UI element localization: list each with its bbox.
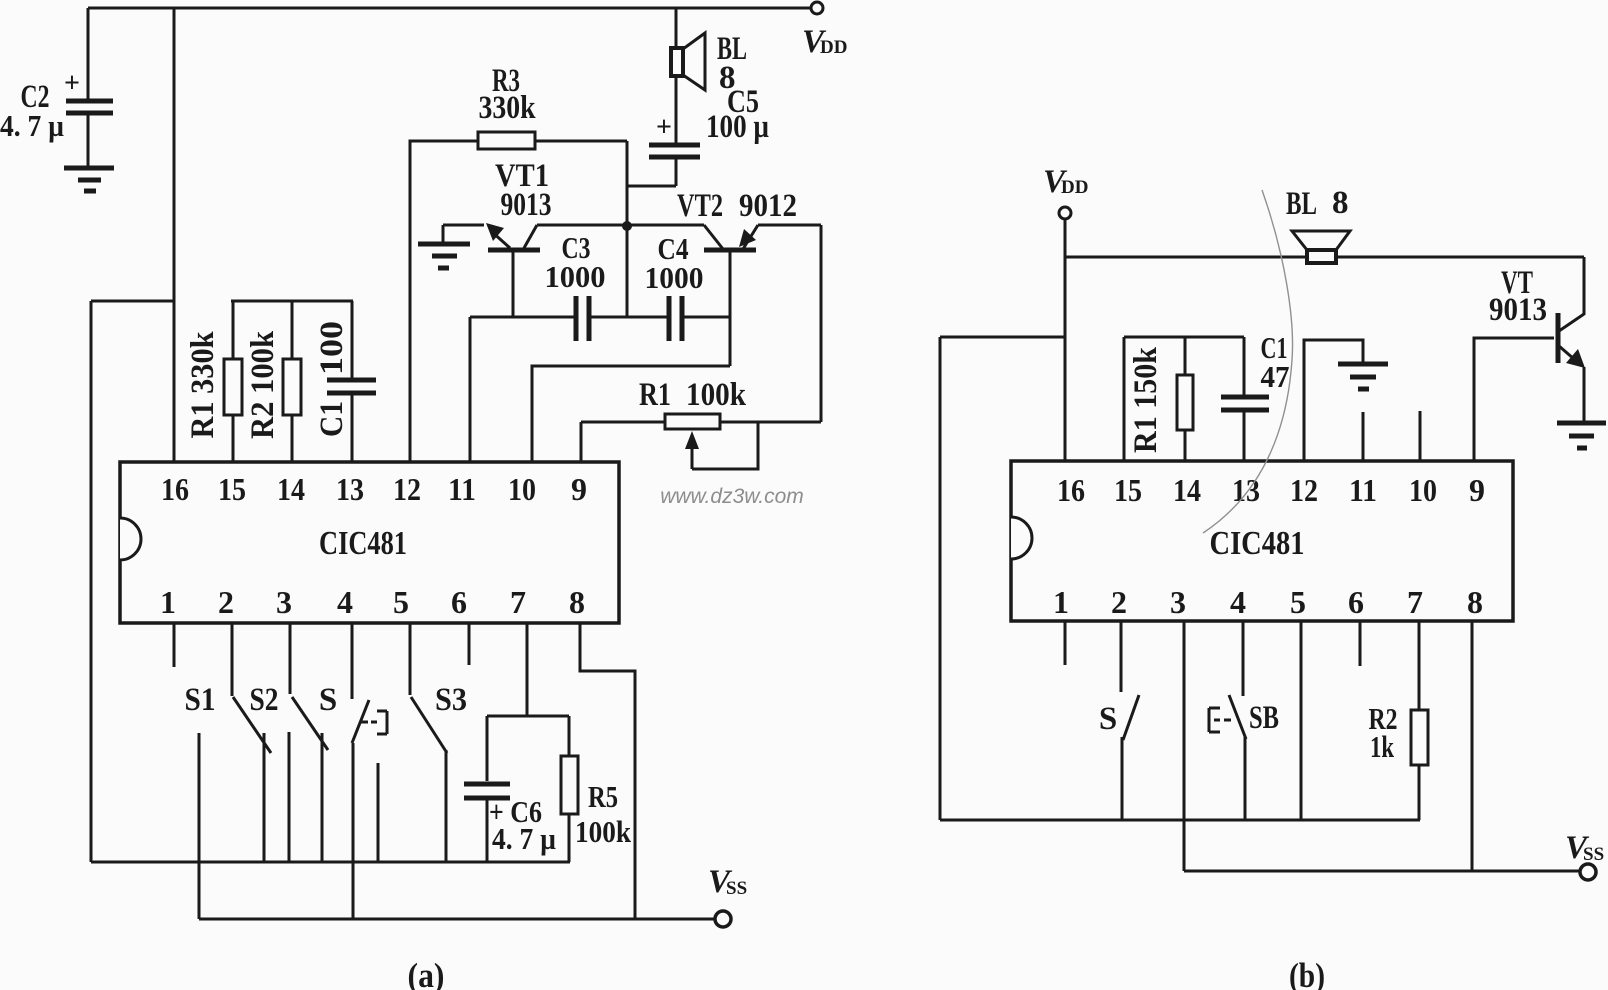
- capacitor C1 47 (b): [1221, 330, 1290, 461]
- svg-text:100: 100: [314, 321, 350, 375]
- transistor VT2 9012: [677, 188, 821, 366]
- wire bottom bus 2 to VSS (b): [1184, 870, 1579, 873]
- pin 7 stub (b): [1418, 621, 1421, 710]
- wire left branch (b): [940, 336, 1065, 339]
- svg-text:3: 3: [276, 584, 292, 620]
- svg-text:14: 14: [1173, 472, 1201, 508]
- svg-text:7: 7: [1407, 584, 1423, 620]
- svg-text:14: 14: [277, 471, 305, 507]
- svg-text:7: 7: [510, 584, 526, 620]
- svg-text:SS: SS: [726, 878, 747, 899]
- wire pin12 vertical to R3 left: [410, 141, 478, 462]
- pin 7 stub: [526, 623, 529, 716]
- scan crease arc (b): [1203, 190, 1293, 533]
- wire top tie R1-R2-C1 (a): [231, 300, 353, 303]
- svg-text:S3: S3: [435, 682, 467, 718]
- pin 11 stub (b): [1362, 412, 1365, 461]
- label VDD (b): [1043, 164, 1088, 200]
- label VSS (a): [708, 864, 747, 900]
- wire R1 C1 top tie (b): [1124, 336, 1244, 339]
- svg-text:(a): (a): [408, 956, 445, 990]
- resistor R5 100k: [561, 716, 632, 862]
- svg-text:12: 12: [393, 471, 421, 507]
- svg-text:DD: DD: [820, 37, 847, 58]
- wire VDD rail (b): [1065, 256, 1584, 259]
- pin 1 stub: [173, 623, 176, 667]
- switch S3: [411, 682, 467, 862]
- svg-text:R1: R1: [639, 377, 671, 413]
- svg-text:S2: S2: [250, 682, 279, 718]
- transistor VT 9013 (b): [1489, 257, 1585, 422]
- svg-text:15: 15: [1114, 472, 1142, 508]
- svg-text:SB: SB: [1249, 700, 1279, 736]
- wire bottom bus 1 (b): [940, 819, 1420, 822]
- wire VT2 base to pin10: [532, 366, 730, 462]
- svg-text:8: 8: [1332, 185, 1349, 221]
- pin 5 stub: [409, 623, 412, 695]
- resistor R1 150k (b): [1128, 337, 1193, 461]
- svg-text:8: 8: [1467, 584, 1483, 620]
- svg-text:47: 47: [1261, 359, 1290, 394]
- wire jog from pin16 line to left bus: [91, 300, 174, 303]
- capacitor C6 4.7u: [464, 716, 556, 862]
- svg-text:9013: 9013: [1489, 292, 1547, 328]
- ground at VT emitter (b): [1557, 423, 1606, 448]
- transistor VT1 9013: [443, 158, 552, 317]
- svg-text:+: +: [656, 112, 672, 143]
- ground below C2: [64, 168, 114, 191]
- svg-text:www.dz3w.com: www.dz3w.com: [660, 485, 804, 508]
- svg-text:9: 9: [1469, 472, 1485, 508]
- svg-text:9013: 9013: [501, 187, 552, 223]
- speaker BL 8 (b): [1286, 185, 1350, 263]
- terminal VSS (b): [1580, 864, 1596, 880]
- capacitor C3 1000: [545, 230, 668, 341]
- svg-text:CIC481: CIC481: [1210, 525, 1305, 562]
- svg-text:VT2: VT2: [677, 188, 723, 224]
- switch S (b): [1099, 695, 1139, 820]
- svg-text:1000: 1000: [645, 260, 704, 295]
- capacitor C2: [0, 8, 113, 166]
- wire R3 right vertical down to node: [626, 141, 629, 317]
- resistor R2 100k (a): [245, 301, 301, 462]
- wire VT1 collector to VT2 collector: [537, 224, 704, 227]
- capacitor C5 100u: [627, 84, 769, 186]
- IC U1 CIC481 (a): [120, 462, 619, 623]
- svg-text:5: 5: [1290, 584, 1306, 620]
- svg-text:4. 7 µ: 4. 7 µ: [0, 108, 64, 143]
- svg-text:+: +: [64, 68, 80, 99]
- svg-text:9: 9: [571, 471, 587, 507]
- potentiometer R1 100k: [581, 377, 821, 469]
- svg-text:10: 10: [1409, 472, 1437, 508]
- pin 8 wire to VSS bus (b): [1471, 621, 1474, 871]
- pin 2 stub (b): [1120, 621, 1123, 692]
- pin 6 stub: [468, 623, 471, 665]
- resistor R1 330k (a): [185, 301, 242, 462]
- svg-text:DD: DD: [1061, 177, 1088, 198]
- svg-text:C1: C1: [314, 401, 350, 437]
- pin 3 wire to VSS bus (b): [1183, 621, 1186, 871]
- pin 1 stub (b): [1064, 621, 1067, 665]
- svg-text:1: 1: [160, 584, 176, 620]
- svg-text:16: 16: [1057, 472, 1085, 508]
- pin 4 stub (b): [1242, 621, 1245, 696]
- svg-text:13: 13: [336, 471, 364, 507]
- wire VDD top rail (a): [88, 7, 811, 10]
- pin 5 wire (b): [1300, 621, 1303, 820]
- wire pin9 vertical: [580, 422, 583, 462]
- wire C6 R5 top tie: [487, 715, 569, 718]
- svg-text:13: 13: [1232, 472, 1260, 508]
- svg-text:R1 330k: R1 330k: [185, 331, 221, 439]
- pin 3 stub: [289, 623, 292, 694]
- wire pin12 to ground (b): [1304, 340, 1363, 461]
- terminal VDD (b): [1059, 207, 1071, 219]
- svg-text:S: S: [1099, 701, 1117, 737]
- svg-text:1000: 1000: [545, 259, 606, 294]
- svg-text:R1 150k: R1 150k: [1128, 346, 1164, 453]
- svg-text:8: 8: [569, 584, 585, 620]
- wire VT2 emitter down right side: [820, 225, 823, 422]
- svg-text:100k: 100k: [575, 814, 632, 849]
- svg-text:9012: 9012: [739, 188, 797, 224]
- svg-text:6: 6: [451, 584, 467, 620]
- svg-text:10: 10: [508, 471, 536, 507]
- svg-text:330k: 330k: [479, 90, 537, 126]
- label VDD (a): [802, 24, 847, 60]
- switch S1: [185, 682, 216, 919]
- svg-text:S1: S1: [185, 682, 216, 718]
- wire bottom bus 1 (a): [91, 861, 570, 864]
- capacitor C4 1000: [645, 231, 731, 341]
- svg-text:BL: BL: [1286, 186, 1317, 222]
- node collector junction: [622, 221, 632, 231]
- svg-text:12: 12: [1290, 472, 1318, 508]
- svg-text:R2 100k: R2 100k: [245, 330, 281, 439]
- svg-text:CIC481: CIC481: [319, 525, 407, 562]
- svg-text:S: S: [319, 682, 337, 718]
- svg-text:2: 2: [218, 584, 234, 620]
- pin 2 stub: [231, 623, 234, 696]
- svg-text:2: 2: [1111, 584, 1127, 620]
- svg-text:4. 7 µ: 4. 7 µ: [492, 821, 556, 856]
- svg-text:6: 6: [1348, 584, 1364, 620]
- svg-text:R5: R5: [588, 779, 618, 814]
- IC U2 CIC481 (b): [1011, 461, 1513, 621]
- speaker BL 8 (a): [671, 8, 747, 143]
- wire pin11 to VT1 base and C3: [470, 316, 574, 319]
- capacitor C1 100 (a): [314, 301, 376, 462]
- switch S2: [233, 682, 279, 862]
- pin 6 stub (b): [1359, 621, 1362, 666]
- pin 10 stub (b): [1419, 411, 1422, 461]
- svg-text:3: 3: [1170, 584, 1186, 620]
- svg-text:5: 5: [393, 584, 409, 620]
- wire pin16 vertical from rail: [173, 8, 176, 462]
- pin 4 stub: [351, 623, 354, 699]
- wire bottom bus 2 (a) to VSS: [199, 918, 714, 921]
- svg-text:100 µ: 100 µ: [706, 109, 769, 145]
- pushbutton SB (b): [1209, 695, 1279, 820]
- pin 15 stub (b): [1123, 337, 1126, 461]
- terminal VDD (a): [811, 2, 823, 14]
- wire left outer vertical (a): [90, 301, 93, 862]
- wire left outer vertical (b): [939, 337, 942, 820]
- svg-text:1k: 1k: [1370, 729, 1395, 764]
- svg-text:4: 4: [337, 584, 353, 620]
- svg-text:11: 11: [448, 471, 476, 507]
- svg-text:16: 16: [161, 471, 189, 507]
- label VSS (b): [1565, 830, 1604, 866]
- svg-text:11: 11: [1349, 472, 1377, 508]
- svg-text:1: 1: [1053, 584, 1069, 620]
- svg-text:(b): (b): [1289, 956, 1325, 990]
- ground at VT1 emitter: [418, 244, 470, 268]
- svg-text:SS: SS: [1583, 844, 1604, 865]
- svg-text:4: 4: [1230, 584, 1246, 620]
- pushbutton switch: [352, 700, 387, 919]
- svg-text:100k: 100k: [686, 377, 747, 413]
- pin 8 jog to VSS line: [580, 623, 635, 919]
- resistor R2 1k (b): [1369, 701, 1429, 820]
- resistor R3 330k: [478, 63, 627, 149]
- switch S: [289, 682, 337, 862]
- ground mid (b): [1338, 364, 1388, 389]
- svg-text:15: 15: [218, 471, 246, 507]
- wire pin9 to VT base (b): [1474, 338, 1554, 461]
- wire VDD stem to pin16 (b): [1064, 219, 1067, 461]
- terminal VSS (a): [715, 911, 731, 927]
